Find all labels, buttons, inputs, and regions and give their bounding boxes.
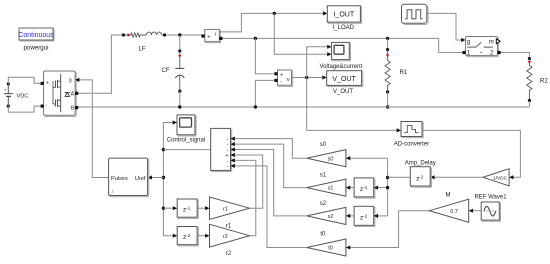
svg-text:V_OUT: V_OUT [332,76,356,83]
breaker block [462,37,500,57]
svg-text:+: + [46,81,49,87]
node Vmeas minus on rail [254,105,257,108]
wire z-2 right output to s2 [350,215,354,217]
svg-text:r2: r2 [226,251,232,257]
node V+ tap [254,37,257,40]
svg-text:powergui: powergui [23,45,48,52]
wire r2 output to sum [235,160,256,235]
wire 1/VDC output to Amp_Delay [435,176,483,178]
wire bottom rail [78,106,529,108]
wire V- branch up from rail [255,80,274,107]
svg-text:r1: r1 [226,224,232,230]
node I junction [273,12,276,15]
gain s0 [307,142,346,167]
I_OUT block [327,6,361,31]
node at CF tap [178,33,181,36]
capacitor CF [162,35,185,107]
arrow into z-1 right [374,186,378,190]
AD-converter block [394,122,429,148]
svg-text:s1: s1 [320,173,327,179]
wire AD output to 1/VDC [422,130,520,177]
svg-text:V_OUT: V_OUT [333,89,353,95]
wire s2 output to sum [235,150,307,216]
svg-text:AD-converter: AD-converter [394,142,429,148]
wire trunk to s0 [350,157,387,159]
node sum output [162,148,165,151]
inductor LF [122,32,166,52]
wire VDC- to bridge [8,106,41,112]
wire z1 branch [163,207,173,209]
svg-text:VDC: VDC [17,94,29,100]
wire trunk Uref/control [163,123,173,236]
DC source VDC [4,82,28,107]
wire Amp_Delay output to trunk [388,176,411,178]
svg-text:I_LOAD: I_LOAD [333,25,355,31]
arrow into s2 [346,214,350,218]
gain t0 [307,231,346,256]
svg-text:Continuous: Continuous [18,32,54,39]
wire pulse generator to breaker gate [427,13,462,40]
wire v junction up to scope input 1 [307,47,327,78]
wire v junction down to AD-converter [307,78,397,131]
wire M gain output to t0 [350,211,429,248]
wire REF Wave1 to M [473,210,481,212]
svg-text:R2: R2 [540,79,548,85]
sum block [211,128,232,171]
arrow into V_OUT [322,75,326,79]
wire z-1 to r1 [197,207,205,209]
svg-text:g: g [69,77,72,83]
svg-text:s2: s2 [320,201,327,207]
wire s0 output to sum [235,139,307,159]
svg-text:g: g [467,40,470,46]
node CF bottom on rail [178,105,181,108]
V_OUT block [327,71,363,95]
current measurement block [201,29,222,42]
wire i signal to I_OUT [219,13,323,32]
wire current meas output main line [223,38,463,52]
arrow into t0 [346,245,350,249]
pulse generator [402,4,429,24]
node R1 bottom on rail [386,105,389,108]
wire z-2 to r2 [197,235,205,237]
delay block z-1 right [354,178,375,198]
svg-text:s0: s0 [320,142,327,148]
Amp_Delay block [405,161,436,188]
wire trunk to z-2 right [378,215,388,217]
gain r2 [210,224,250,257]
gain M 0.7 [430,193,469,223]
svg-text:+: + [280,73,283,79]
wire i junction down to scope [274,13,327,54]
svg-text:LF: LF [138,47,145,53]
svg-text:r1: r1 [223,206,228,212]
svg-text:REF Wave1: REF Wave1 [474,195,507,201]
Pulses block [109,158,149,197]
svg-text:v: v [287,77,290,83]
svg-text:M: M [446,193,451,199]
svg-text:R1: R1 [400,70,408,76]
svg-text:Uref: Uref [135,176,146,182]
resistor R1 [385,38,408,107]
delay block z-2 lower [177,227,198,246]
wire LF to current measurement [166,34,201,36]
svg-text:Amp_Delay: Amp_Delay [405,161,436,167]
wire Uref branch [152,177,163,179]
node v junction [305,76,308,79]
arrow into I_OUT [323,11,327,15]
wire Pulses to gate g [79,80,108,178]
svg-text:m: m [489,39,494,45]
wire v output to V_OUT [292,77,323,79]
wire VDC+ to bridge [8,77,41,84]
resistor R2 [527,57,549,107]
half-bridge MOSFET block [41,71,79,117]
voltage measurement block [274,70,292,86]
wire t0 output to sum [235,166,307,248]
delay block z-2 right [354,206,375,226]
powergui block [18,28,54,52]
svg-text:CF: CF [162,68,170,74]
svg-text:Voltage&current: Voltage&current [319,64,362,70]
node Uref tap [162,176,165,179]
svg-text:Control_signal: Control_signal [167,137,205,143]
arrow into z-2 right [374,214,378,218]
svg-text:0.7: 0.7 [450,209,458,215]
gain s1 [307,173,346,197]
arrow into Control_signal [173,120,177,124]
svg-text:+: + [4,88,7,93]
wire breaker port2 to R2 [501,53,530,59]
gain r1 [210,197,250,230]
node z1 tap [162,207,165,210]
scope Control_signal [167,115,205,143]
svg-text:s1: s1 [328,186,334,192]
node z-1 right tap [386,186,389,189]
wire AD trunk vertical [387,158,389,216]
arrow into M [469,209,473,213]
wire s1 output to sum [235,144,307,188]
svg-text:⇩: ⇩ [111,189,115,195]
scope Voltage&current [319,42,362,69]
wire trunk to z-1 right [378,187,388,189]
gain s2 [307,201,346,225]
svg-text:t0: t0 [328,246,333,252]
svg-text:I_OUT: I_OUT [333,12,354,19]
svg-text:s0: s0 [328,156,334,162]
wire sum output to trunk [163,149,210,151]
svg-text:t0: t0 [320,231,326,237]
sum input arrows [231,137,235,141]
wire r1 output to sum [235,155,263,208]
svg-text:r2: r2 [223,234,228,240]
gate input arrow g [75,78,79,82]
node R1 top tap [386,37,389,40]
node Amp_Delay output [386,176,389,179]
delay block z-1 lower [177,199,198,218]
svg-text:1/VDC: 1/VDC [493,175,508,181]
wire V+ branch down [255,38,274,73]
wire z-1 right output to s1 [350,187,354,189]
gain 1/VDC [483,169,509,186]
wire bridge A output up to LF [78,35,122,93]
svg-text:Pulses: Pulses [111,176,128,182]
REF Wave1 source [474,195,507,222]
svg-text:s2: s2 [328,214,334,220]
arrow into s1 [346,186,350,190]
arrow into s0 [346,156,350,160]
svg-text:+: + [207,35,210,41]
